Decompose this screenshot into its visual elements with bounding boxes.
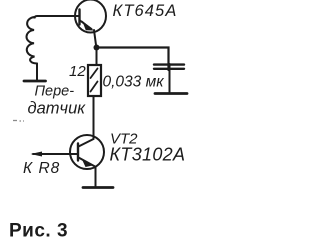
transistor Q2 (VT2) circle (70, 135, 104, 169)
wire: Q1 emitter to node A (94, 30, 96, 47)
capacitor C1 top plate (154, 63, 184, 65)
wire: capacitor C1 to bottom terminal (169, 64, 171, 92)
ground bar of Q2 (83, 186, 113, 189)
svg-text:Рис. 3: Рис. 3 (9, 221, 68, 242)
transistor Q1 emitter with arrow (80, 21, 92, 30)
wire: crystal to transistor Q2 collector (93, 96, 95, 139)
wire: base wire of Q2 (33, 153, 78, 155)
wire: node A down to crystal (96, 50, 98, 65)
svg-text:КТ645А: КТ645А (113, 2, 178, 20)
svg-text:КТ3102А: КТ3102А (110, 145, 186, 165)
svg-text:0,033 мк: 0,033 мк (103, 74, 165, 91)
svg-text:датчик: датчик (28, 100, 87, 118)
transistor Q2 collector diagonal (79, 139, 94, 147)
inductor L1 (coil) (26, 17, 37, 64)
arrow to R8 (31, 152, 43, 157)
capacitor C1 bottom plate (154, 68, 184, 70)
crystal ZQ1 hatch slash 2 (91, 82, 98, 92)
ground bar of coil (24, 80, 46, 83)
wire: base wire to coil (35, 16, 80, 19)
transistor Q2 emitter with arrow (79, 158, 96, 167)
svg-text:К R8: К R8 (23, 160, 60, 177)
crystal ZQ1 hatch slash 1 (91, 69, 98, 79)
transistor Q1 (VT1) circle (75, 0, 106, 33)
node A junction dot (94, 45, 100, 51)
wire: Q2 emitter to ground (95, 167, 97, 187)
svg-text:Пере-: Пере- (35, 84, 75, 100)
wire: node A to capacitor C1 (horizontal then down) (96, 48, 169, 71)
transistor Q2 base bar (77, 144, 79, 161)
crystal ZQ1 rectangle (88, 65, 101, 96)
terminal bar below capacitor C1 (155, 92, 187, 95)
wire: coil bottom lead (36, 64, 38, 80)
transistor Q1 base bar (78, 10, 80, 25)
svg-text:12: 12 (69, 63, 86, 80)
artifact dashes (scan remnants) (13, 120, 24, 123)
